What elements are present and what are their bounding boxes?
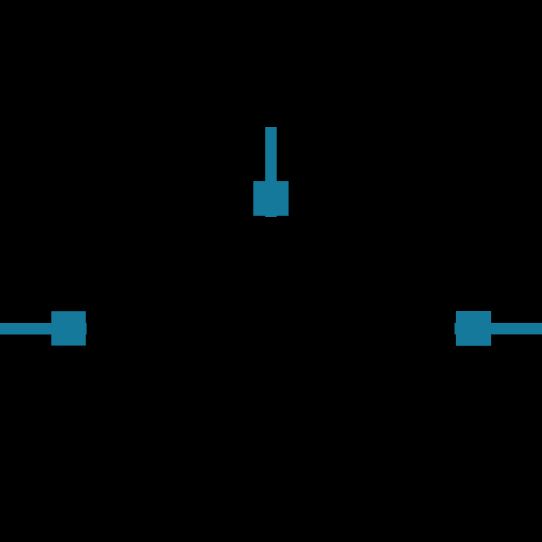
wire pin 1 (top, vertical lead) bbox=[265, 127, 277, 217]
pad pin 3 (right square pin end) bbox=[456, 311, 491, 346]
wire pin 3 (right, horizontal lead) bbox=[455, 323, 542, 335]
pad pin 1 (top square pin end) bbox=[253, 181, 288, 216]
wire pin 2 (left, horizontal lead) bbox=[0, 323, 87, 335]
pad pin 2 (left square pin end) bbox=[51, 311, 86, 345]
